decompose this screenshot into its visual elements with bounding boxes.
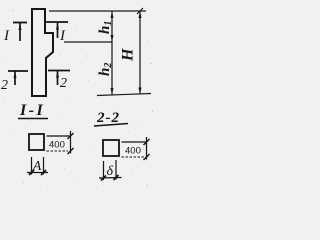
dim 400 bottom extension line (section 1-1)	[47, 150, 69, 152]
dim 400 tick top (section 2-2)	[144, 139, 150, 145]
section mark 2 right: cut line	[48, 70, 70, 72]
step level line	[64, 41, 112, 43]
column elevation outline	[32, 9, 53, 96]
dim 400 bottom extension line (section 2-2)	[122, 156, 145, 158]
svg-text:2: 2	[60, 76, 67, 91]
svg-text:I-I: I-I	[19, 102, 45, 119]
section mark 1 left: cut line	[13, 22, 27, 24]
section mark 1 right: arrow stroke	[57, 23, 59, 39]
section mark 1 left: arrow stroke	[19, 23, 21, 41]
svg-text:A: A	[32, 158, 42, 173]
dim 400 tick bottom (section 2-2)	[144, 154, 150, 160]
dimension line h1/h2	[111, 11, 113, 95]
arrow down at bottom of H	[139, 88, 142, 95]
dim A extension lines (section 1-1 width)	[31, 157, 33, 175]
section mark 2 left: cut line	[8, 70, 28, 72]
dim b dimension line	[99, 177, 122, 180]
paper speckle	[3, 10, 153, 189]
svg-text:H: H	[120, 48, 137, 62]
dim A dimension line	[27, 172, 48, 174]
svg-text:2: 2	[1, 78, 8, 93]
arrow down at bottom of h1	[111, 35, 114, 42]
section 2-2 square	[103, 140, 119, 156]
roof level line	[49, 10, 146, 12]
ground level line	[97, 94, 151, 96]
dim b tick right	[114, 175, 119, 180]
section mark 2 left: arrow stroke	[14, 72, 16, 86]
section mark 2 right: arrow stroke	[57, 71, 59, 85]
dim 400 tick top (section 1-1)	[68, 133, 74, 139]
dim A tick right	[41, 170, 46, 175]
arrow up at top of h1	[111, 12, 114, 19]
dim A tick left	[29, 170, 34, 175]
section 1-1 square	[29, 134, 44, 150]
dim 400 dimension line (section 1-1)	[70, 131, 72, 154]
oblique tick at top of H	[137, 8, 143, 14]
section mark 1 left: arrowhead	[19, 24, 22, 30]
dim b tick left	[101, 176, 106, 181]
dimension line H	[139, 11, 141, 95]
dim 400 dimension line (section 2-2)	[146, 137, 148, 160]
arrow down at bottom of h2	[111, 88, 114, 95]
svg-text:δ: δ	[107, 164, 114, 179]
section mark 1 right: cut line	[46, 21, 68, 23]
svg-text:2-2: 2-2	[96, 110, 120, 126]
section mark 2 right: arrowhead	[56, 72, 59, 78]
dim 400 top extension line (section 1-1)	[47, 135, 72, 137]
arrow up at top of H	[139, 12, 142, 19]
svg-text:400: 400	[49, 140, 65, 151]
dim b extension lines (section 2-2 width)	[103, 161, 105, 180]
paper background	[0, 0, 154, 191]
title 1-1 underline	[18, 118, 48, 120]
section mark 2 left: arrowhead	[14, 72, 17, 78]
dim 400 tick bottom (section 1-1)	[68, 148, 74, 154]
section mark 1 right: arrowhead	[56, 23, 59, 30]
svg-text:I: I	[3, 28, 10, 44]
svg-text:400: 400	[125, 146, 141, 157]
dim 400 top extension line (section 2-2)	[122, 141, 148, 143]
title 2-2 underline	[94, 124, 128, 127]
